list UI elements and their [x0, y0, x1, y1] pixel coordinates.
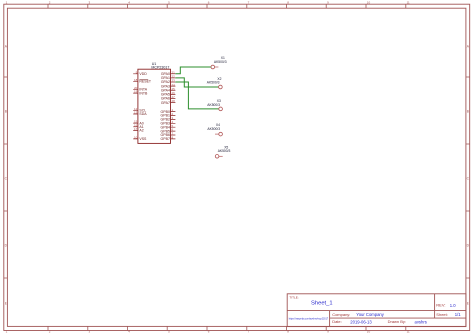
svg-text:2019-06-13: 2019-06-13 [350, 319, 372, 324]
wire GPA2 to X3 [175, 82, 218, 109]
svg-text:AK500/3: AK500/3 [207, 103, 220, 107]
svg-text:avshrs: avshrs [415, 319, 427, 324]
svg-text:REV:: REV: [436, 303, 445, 308]
svg-text:E: E [467, 302, 469, 306]
title block outline [287, 294, 466, 327]
svg-text:Sheet:: Sheet: [436, 312, 448, 317]
IC U1 right pin stubs [171, 74, 176, 139]
connector X2 AK500/3 pin circle [219, 85, 223, 89]
svg-text:E: E [5, 302, 7, 306]
svg-text:GPB7: GPB7 [161, 137, 170, 141]
svg-text:INTB: INTB [139, 91, 148, 95]
svg-text:11: 11 [407, 0, 410, 4]
connector X1 AK500/3 pin circle [211, 65, 215, 69]
IC U1 left pin stubs [133, 74, 138, 139]
svg-text:AK500/3: AK500/3 [207, 81, 220, 85]
svg-text:Sheet_1: Sheet_1 [311, 300, 333, 306]
svg-text:GPA7: GPA7 [161, 101, 170, 105]
svg-text:10: 10 [367, 330, 371, 334]
IC U1 left pin names [139, 72, 152, 141]
svg-text:https://easyeda.com/avshrs/mcp: https://easyeda.com/avshrs/mcp23017 [289, 317, 329, 320]
wire GPA1 to X2 [175, 78, 218, 87]
connector X4 AK500/3 pin circle [219, 132, 223, 136]
svg-text:Your Company: Your Company [356, 312, 384, 317]
svg-text:10: 10 [134, 136, 138, 140]
svg-text:TITLE:: TITLE: [289, 295, 298, 299]
svg-text:A2: A2 [139, 129, 143, 133]
svg-text:Company:: Company: [332, 312, 350, 317]
svg-text:28: 28 [172, 99, 176, 103]
svg-text:RESET: RESET [139, 80, 152, 84]
svg-text:10: 10 [367, 0, 371, 4]
svg-text:AK500/3: AK500/3 [218, 149, 231, 153]
IC U1 left pin numbers [134, 70, 138, 139]
svg-text:1.0: 1.0 [450, 303, 456, 308]
svg-text:Drawn By:: Drawn By: [388, 319, 406, 324]
frame row letters [5, 45, 470, 306]
svg-text:AK500/3: AK500/3 [207, 127, 220, 131]
RESET pin active-low overline [139, 78, 148, 80]
svg-text:1/1: 1/1 [455, 312, 461, 317]
svg-text:MCP23017: MCP23017 [151, 66, 169, 70]
wire GPA0 to X1 [175, 67, 211, 74]
svg-text:13: 13 [134, 111, 138, 115]
connector X1 pin stub [215, 66, 219, 68]
svg-text:17: 17 [134, 127, 138, 131]
svg-text:Date:: Date: [332, 319, 342, 324]
connector X5 AK500/3 pin circle [215, 155, 219, 159]
connector X4 pin stub [215, 133, 219, 135]
op IC U1 MCP23017 body [138, 69, 171, 143]
svg-text:VSS: VSS [139, 137, 147, 141]
svg-text:SDA: SDA [139, 112, 147, 116]
svg-text:19: 19 [134, 90, 138, 94]
connector X5 pin stub [219, 155, 223, 157]
IC U1 right pin names GPA0-GPA7 GPB0-GPB7 [161, 72, 170, 141]
svg-text:18: 18 [134, 78, 138, 82]
connector X3 AK500/3 pin circle [219, 107, 223, 111]
svg-text:AK500/3: AK500/3 [214, 60, 227, 64]
svg-text:VDD: VDD [139, 72, 147, 76]
svg-text:11: 11 [407, 330, 410, 334]
svg-text:B: B [467, 110, 469, 114]
svg-text:B: B [5, 110, 7, 114]
IC U1 right pin numbers GPA 21-28 and GPB 1-8 [172, 70, 176, 139]
